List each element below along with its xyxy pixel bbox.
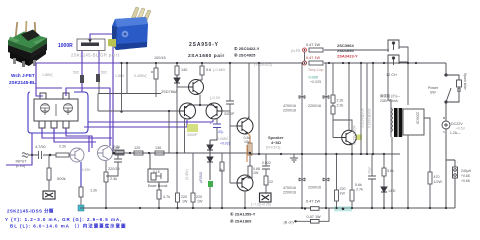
transistor diff pair right 2SA1680 [206, 103, 222, 119]
svg-text:1W: 1W [244, 140, 250, 144]
capacitor 47u right [368, 154, 377, 208]
snubber spark killer [446, 75, 462, 102]
wire upper branch rail [324, 49, 389, 51]
svg-text:1.88V: 1.88V [115, 74, 125, 78]
svg-text:100/16: 100/16 [154, 56, 166, 60]
node dot pair top [199, 104, 201, 106]
svg-text:[0+0.5+1]: [0+0.5+1] [266, 146, 280, 150]
wire purple pot left to package [81, 83, 83, 92]
wire emitter to pair [188, 95, 215, 106]
node input [31, 154, 33, 156]
transistor driver top 2SC [237, 118, 253, 134]
connector plug upper [388, 40, 399, 50]
label lower caps [283, 186, 296, 195]
resistor 5.6k right [350, 154, 363, 208]
resistor 140 [175, 63, 187, 75]
resistor 220 1W right [335, 154, 346, 208]
input jack [22, 153, 28, 158]
svg-text:+0.68: +0.68 [461, 174, 470, 178]
capacitor 220/16 [106, 154, 122, 176]
node dot 121 base [120, 110, 122, 112]
svg-text:2SK2145-BL: 2SK2145-BL [9, 80, 36, 85]
svg-text:2.2k: 2.2k [59, 145, 66, 149]
svg-text:2200/16: 2200/16 [283, 191, 296, 195]
svg-text:兩繞組 (小)—: 兩繞組 (小)— [380, 93, 401, 98]
svg-text:2SA950-Y: 2SA950-Y [189, 42, 219, 48]
wire column 127 [126, 63, 128, 94]
svg-text:220: 220 [340, 187, 346, 191]
svg-text:µF5510: µF5510 [199, 172, 203, 183]
transistor 2SD786A [188, 80, 204, 95]
wire mid rail right [250, 153, 400, 155]
svg-text:1.88V{: 1.88V{ [42, 73, 53, 77]
resistor 2.2k second [113, 145, 124, 154]
svg-text:}-0.66V: }-0.66V [213, 68, 226, 72]
node dots plug [407, 62, 417, 64]
svg-text:0.000: 0.000 [309, 76, 319, 80]
svg-text:2200/16: 2200/16 [308, 104, 321, 108]
svg-text:Temp.Cmp: Temp.Cmp [308, 68, 324, 72]
capacitor main filter A [299, 63, 305, 208]
wire pot right leg [98, 51, 100, 75]
svg-text:4700/16: 4700/16 [283, 186, 296, 190]
svg-text:240µH: 240µH [461, 169, 472, 173]
svg-text:2SK2145-IDSS 分類: 2SK2145-IDSS 分類 [7, 208, 54, 215]
wire plug bus [388, 47, 408, 105]
label 4700/16 2200/16 upper [283, 104, 296, 113]
node dots mid rail [301, 153, 385, 155]
wire column 121.5 [121, 63, 123, 112]
capacitor 4.7/50 [28, 145, 56, 159]
svg-text:1W: 1W [253, 171, 259, 175]
wire blue source A [80, 162, 82, 187]
wire driver collector top [248, 63, 249, 119]
transistor diff pair left 2SA950 [180, 103, 196, 119]
svg-text:0.59V: 0.59V [82, 168, 91, 172]
capacitor 47u blue [210, 122, 224, 135]
resistor 4.7k [157, 188, 170, 208]
svg-text:2SA1680 pair: 2SA1680 pair [188, 53, 225, 59]
potentiometer Bass Boost box [148, 153, 168, 188]
svg-text:+0.02): +0.02) [220, 142, 230, 146]
diode chain D2 [207, 140, 213, 180]
resistor 470 [428, 160, 442, 208]
resistor 500k bias [47, 155, 66, 190]
resistor feedback 2.2k [112, 146, 124, 155]
resistor 2.4k source [104, 161, 117, 208]
svg-text:0.495V{: 0.495V{ [134, 74, 147, 78]
resistor 0.47 1W lower [303, 56, 324, 65]
wire pot right down [98, 82, 100, 94]
fuse F1 [446, 140, 458, 208]
resistor 2.2k input [56, 145, 70, 158]
svg-text:220/16: 220/16 [108, 167, 120, 171]
svg-text:SW: SW [430, 91, 436, 95]
wire left collector [184, 118, 186, 153]
svg-text:4700/16: 4700/16 [283, 104, 296, 108]
chassis box zobel [260, 193, 272, 202]
svg-text:DC22V: DC22V [451, 122, 463, 126]
svg-text:5.6k: 5.6k [355, 183, 362, 187]
svg-text:Base Boost: Base Boost [148, 184, 168, 188]
label Power SW [428, 86, 439, 95]
node dots rail left [120, 62, 231, 64]
wire purple wiper [90, 34, 113, 153]
highlight marker yellow [187, 124, 198, 132]
svg-text:(0.005V: (0.005V [216, 137, 229, 141]
svg-text:5.6k: 5.6k [387, 169, 394, 173]
wire driver base [230, 125, 237, 127]
wire purple pot left leg [81, 51, 83, 76]
chassis ground box [43, 191, 55, 199]
potentiometer VR 1000R box [77, 39, 105, 51]
svg-text:0.47 1W: 0.47 1W [306, 200, 321, 204]
transformer T1 [391, 103, 424, 137]
svg-text:4−8Ω: 4−8Ω [271, 140, 282, 145]
ground symbol mid a [290, 154, 298, 162]
svg-text:BL (L): 6.0~14.0 mA （）内法蘭蓋底示意圖: BL (L): 6.0~14.0 mA （）内法蘭蓋底示意圖 [10, 223, 126, 230]
svg-text:502: 502 [73, 71, 79, 75]
svg-text:1.2A—: 1.2A— [450, 131, 461, 135]
wire bottom ground rail [80, 207, 455, 209]
wire purple input shield [6, 133, 32, 165]
J-FET internal symbols [41, 104, 73, 117]
wire comp down [229, 111, 231, 153]
wire orange emitter path [247, 133, 250, 162]
node dots bottom rail [105, 207, 447, 210]
resistor 5.6 [200, 63, 211, 75]
wire right collector [210, 118, 217, 145]
resistor feedback 120 [134, 146, 143, 155]
svg-text:INPUT: INPUT [16, 160, 28, 164]
capacitor main filter B [323, 63, 329, 208]
blue routing box around package [28, 92, 88, 133]
wire transformer leads [388, 85, 430, 208]
wire driver bottom col [230, 153, 245, 208]
svg-text:0.47 1W: 0.47 1W [307, 215, 322, 219]
svg-text:(−7.2)(+0.25): (−7.2)(+0.25) [251, 203, 271, 207]
resistor 0.47 1W upper [303, 43, 324, 61]
resistor 502 left [73, 71, 84, 84]
label 240uH [461, 169, 472, 183]
wire purple supply rail left [36, 63, 120, 88]
svg-text:Y (Y): 1.2~3.0 mA, GR (G): 2.: Y (Y): 1.2~3.0 mA, GR (G): 2.9~6.5 mA, [5, 217, 122, 222]
svg-text:0.915V@20V: 0.915V@20V [361, 108, 365, 128]
svg-text:1: 1 [41, 129, 43, 133]
wire diode col to rail [209, 187, 211, 208]
svg-text:0.47 1W: 0.47 1W [306, 43, 321, 47]
resistor 1.2k [79, 187, 97, 206]
diode D1 [174, 75, 180, 87]
photo blue trimmer potentiometer [108, 7, 151, 50]
photo green J-FET module PCB [8, 21, 47, 67]
svg-text:136: 136 [155, 146, 161, 150]
svg-text:(B ch): (B ch) [284, 221, 295, 225]
svg-text:② 2SC4925: ② 2SC4925 [234, 53, 256, 58]
capacitor 3300P comp [224, 63, 235, 116]
node dots rail right [328, 62, 385, 64]
svg-text:140: 140 [181, 68, 187, 72]
teal highlight band [334, 206, 352, 211]
svg-text:② 2SA1869: ② 2SA1869 [230, 219, 252, 224]
svg-text:2SA3423-Y: 2SA3423-Y [337, 54, 358, 59]
svg-text:3300P: 3300P [224, 112, 235, 116]
svg-text:1W: 1W [197, 200, 203, 204]
wire diode to feedback [176, 87, 178, 153]
wire vas connections [333, 63, 352, 154]
svg-text:120: 120 [134, 146, 140, 150]
green marker [208, 181, 213, 187]
svg-text:+0.5V: +0.5V [456, 127, 466, 131]
svg-text:① 2SA1359-Y: ① 2SA1359-Y [230, 212, 256, 217]
svg-text:}-0.2V: }-0.2V [210, 96, 221, 100]
svg-text:(+7.2V≈0.2): (+7.2V≈0.2) [254, 63, 272, 67]
svg-text:0.915V@20V: 0.915V@20V [368, 108, 372, 128]
svg-text:5.6: 5.6 [206, 68, 211, 72]
svg-text:47µF: 47µF [368, 167, 372, 174]
node pin numbers [41, 129, 67, 133]
svg-text:220: 220 [196, 195, 202, 199]
resistor 3k [220, 153, 224, 208]
svg-text:2200/16: 2200/16 [283, 109, 296, 113]
svg-text:① 2SC3422-Y: ① 2SC3422-Y [234, 46, 260, 51]
wire purple pins to bus [36, 88, 213, 152]
wire base 2SD786A [177, 86, 188, 88]
capacitor 100/16 [151, 63, 158, 97]
node dots bootstrap [258, 62, 282, 155]
wire top rail right section [324, 62, 446, 64]
svg-text:1000R: 1000R [58, 43, 73, 49]
resistor 220 1W b [191, 153, 203, 208]
svg-text:0.15: 0.15 [153, 170, 160, 174]
wire bootstrap column [258, 63, 260, 154]
svg-text:235V 10mA: 235V 10mA [380, 99, 398, 103]
svg-text:2.2k: 2.2k [337, 99, 344, 103]
svg-text:2SD1694: 2SD1694 [337, 48, 354, 53]
svg-text:+0.025: +0.025 [310, 80, 321, 84]
wire right base [222, 110, 230, 112]
svg-text:1/2W: 1/2W [434, 180, 443, 184]
J-FET package outline [34, 93, 78, 128]
svg-text:2SK2145-BL/GR pair): 2SK2145-BL/GR pair) [71, 53, 120, 58]
svg-text:22: 22 [269, 180, 273, 184]
power switch SW [445, 63, 451, 120]
transistor vas 2SC [342, 130, 357, 145]
svg-text:2SD786A: 2SD786A [161, 89, 178, 94]
resistor 0.47 1W bottom a [306, 200, 321, 211]
svg-text:+: + [210, 122, 212, 126]
svg-text:47µ: 47µ [218, 130, 224, 134]
svg-text:470: 470 [434, 175, 440, 179]
capacitor 0.022 [262, 154, 271, 176]
svg-text:(0.45V): (0.45V) [185, 169, 189, 180]
node cyan [78, 205, 84, 211]
svg-text:3300P: 3300P [187, 133, 198, 137]
svg-text:502: 502 [101, 71, 107, 75]
transistor Q jfet B [98, 146, 113, 161]
svg-text:2.7k: 2.7k [356, 188, 363, 192]
resistor 2.2k pair upper [331, 63, 343, 138]
resistor 220 1W a [176, 153, 188, 208]
ammeter M1 [442, 117, 450, 140]
svg-text:4.7/50: 4.7/50 [35, 145, 46, 149]
resistor 0.68 1W bottom [248, 156, 260, 178]
svg-text:2.2k: 2.2k [112, 146, 119, 150]
svg-text:1W: 1W [340, 192, 346, 196]
svg-text:4.7k: 4.7k [163, 195, 170, 199]
LED [381, 187, 387, 208]
highlight marker yellow vas [357, 135, 363, 141]
wire mid feedback rail [112, 152, 250, 154]
resistor 502 right [96, 71, 107, 83]
resistor feedback 136 [155, 146, 164, 155]
wire h93 [98, 93, 161, 95]
svg-text:3: 3 [65, 129, 67, 133]
svg-text:0.47 1W: 0.47 1W [306, 56, 321, 60]
resistor 0.68 1W top [244, 136, 253, 155]
svg-text:0.022: 0.022 [262, 161, 271, 165]
transistor Q jfet A [70, 148, 84, 162]
node dot left base [168, 110, 170, 112]
connector plug lower [388, 55, 399, 65]
svg-text:2.4k: 2.4k [110, 177, 117, 181]
resistor 22 [264, 176, 273, 193]
svg-text:1.2k: 1.2k [90, 189, 97, 193]
node dot output [249, 152, 251, 154]
transistor driver bottom 2SA [237, 175, 253, 191]
svg-text:Wch J-FET: Wch J-FET [11, 73, 35, 78]
resistor 5.6k right col [382, 154, 394, 187]
svg-text:0.915V@20V: 0.915V@20V [353, 125, 357, 145]
svg-text:500k: 500k [57, 176, 66, 181]
svg-text:Spark killer: Spark killer [463, 73, 467, 91]
svg-text:(N-PS: (N-PS [291, 49, 301, 53]
svg-text:220: 220 [181, 195, 187, 199]
svg-text:2200/16: 2200/16 [308, 186, 321, 190]
wire collector 5.6 [199, 75, 202, 80]
wire left base [98, 94, 180, 154]
svg-text:1W: 1W [182, 200, 188, 204]
wire columns right of vas [361, 63, 373, 154]
node dots feedback [113, 152, 178, 154]
svg-text:2.2k: 2.2k [337, 104, 344, 108]
svg-text:Power: Power [428, 86, 439, 90]
svg-text:2200/16: 2200/16 [416, 112, 420, 124]
wire top supply rail [120, 62, 303, 64]
resistor 0.47 1W bottom b [294, 209, 329, 224]
svg-text:2: 2 [53, 129, 55, 133]
svg-text:+0.68: +0.68 [461, 179, 470, 183]
